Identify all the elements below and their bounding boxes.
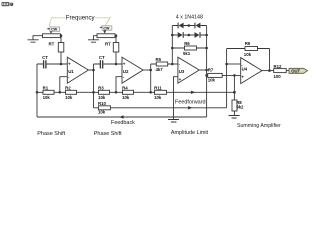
wire U1 out (88, 69, 93, 71)
svg-text:RT: RT (49, 41, 55, 46)
wire U4 minus row (227, 63, 241, 65)
ground pot1 (28, 40, 39, 42)
svg-text:+: + (179, 77, 182, 82)
node U2 out (149, 69, 152, 72)
capacitor CT1 (44, 60, 46, 68)
resistor R7 (208, 73, 223, 77)
node pot1 right (60, 34, 63, 37)
op-amp U1 (67, 57, 88, 83)
svg-text:R6: R6 (184, 41, 190, 46)
logo (2, 2, 14, 6)
op-amp U2 (122, 57, 143, 83)
svg-text:10k: 10k (122, 95, 130, 100)
wire limiter left rail (171, 26, 173, 65)
node RT2/sig (115, 63, 118, 66)
wire R7 row (207, 74, 241, 76)
svg-text:Phase Shift: Phase Shift (37, 131, 65, 137)
svg-text:10k: 10k (43, 95, 51, 100)
node rail left (36, 91, 39, 94)
pot1 wiper arrow (50, 30, 52, 33)
svg-text:10k: 10k (208, 77, 216, 82)
wire R8 to ground (233, 111, 235, 116)
feedback rail (37, 116, 207, 118)
svg-text:+: + (123, 62, 126, 67)
svg-text:R9: R9 (245, 41, 251, 46)
svg-text:U1: U1 (68, 69, 74, 74)
ground U3 plus (168, 120, 179, 123)
svg-text:4 x 1N4148: 4 x 1N4148 (176, 14, 203, 20)
svg-text:R10: R10 (98, 101, 107, 106)
wire R5 row (151, 63, 173, 65)
ground pot2 (88, 40, 99, 42)
svg-text:CW: CW (103, 27, 110, 31)
svg-text:RT: RT (105, 41, 111, 46)
resistor RT2 (113, 43, 119, 53)
node U3 out (205, 69, 208, 72)
CW badge 2 (99, 26, 112, 31)
node RT1/sig (60, 63, 63, 66)
wire U3 out (199, 69, 206, 71)
wire limiter right rail / U3 out vertical / feedback drop (206, 26, 208, 118)
resistor RT1 (58, 43, 64, 53)
callout lines frequency (49, 18, 110, 27)
node rail end (233, 91, 236, 94)
wire minus stub U2 (116, 77, 122, 93)
node mid left (171, 34, 174, 37)
resistor R1 (43, 90, 54, 94)
wire v2 vertical (150, 64, 152, 92)
svg-text:U2: U2 (123, 69, 129, 74)
wire R12 to out (286, 70, 289, 72)
node mid right (205, 34, 208, 37)
node R7 tee (205, 74, 208, 77)
arrow feedforward rail (191, 91, 196, 94)
node U1 out (92, 69, 95, 72)
potentiometer pot2 body (97, 34, 115, 38)
wire U3 minus stub (172, 63, 178, 65)
svg-text:10k: 10k (65, 95, 73, 100)
wire limiter top row (172, 25, 206, 27)
resistor R5 (156, 62, 167, 66)
wire pot1 left to ground (33, 36, 43, 40)
diode D2 (195, 23, 200, 29)
resistor R6 (185, 46, 197, 50)
svg-text:Feedforward: Feedforward (175, 99, 206, 105)
node pot2 right (115, 34, 118, 37)
svg-text:10k: 10k (244, 52, 252, 57)
svg-text:R12: R12 (274, 64, 283, 69)
resistor R10 (98, 106, 110, 110)
node out2 rail (149, 91, 152, 94)
diode D3 (178, 32, 183, 38)
wire CT2 row (94, 63, 123, 65)
wire U3 plus stub to ground (174, 77, 178, 120)
OUT tag (289, 68, 308, 73)
svg-text:CT: CT (42, 55, 48, 60)
svg-text:U4: U4 (242, 67, 248, 72)
svg-text:R5: R5 (156, 57, 162, 62)
node R6 left (171, 47, 174, 50)
svg-text:10k: 10k (98, 95, 106, 100)
wire minus stub U1 (60, 77, 68, 93)
wire CT1 row (37, 63, 67, 65)
resistor R9 (245, 47, 258, 51)
diode D4 (195, 32, 200, 38)
wire R10 row (94, 107, 227, 109)
svg-text:R11: R11 (154, 85, 162, 90)
wire RT2 vertical (115, 36, 117, 64)
svg-text:Frequency: Frequency (66, 14, 96, 21)
svg-text:9k2: 9k2 (236, 104, 244, 109)
wire pot2 left to ground (94, 36, 98, 40)
svg-text:Amplitude Limit: Amplitude Limit (171, 130, 209, 136)
node U4 out (268, 69, 271, 72)
op-amp U3 (178, 57, 199, 83)
resistor R3 (99, 90, 110, 94)
svg-text:R4: R4 (122, 85, 128, 90)
svg-text:+: + (68, 62, 71, 67)
text labels (66, 14, 203, 21)
diode D1 (179, 23, 184, 29)
resistor R12 (274, 69, 287, 73)
node R6 right (205, 47, 208, 50)
wire R9 rail (227, 49, 270, 71)
node U3 minus (171, 63, 174, 66)
node mid mid (188, 34, 191, 37)
resistor R8 (232, 100, 237, 111)
wire v1 vertical (93, 64, 95, 108)
arrow feedback (119, 115, 124, 118)
svg-text:Phase Shift: Phase Shift (94, 131, 122, 137)
svg-text:U3: U3 (179, 69, 185, 74)
wire limiter mid row (172, 34, 206, 36)
wire R8 leg (233, 75, 235, 100)
svg-text:100: 100 (274, 74, 282, 79)
node out1 rail (92, 91, 95, 94)
potentiometer pot1 body (43, 34, 61, 38)
wire feedback-left vertical (36, 64, 38, 117)
wire U4 out (262, 70, 274, 72)
resistor R11 (155, 90, 167, 94)
svg-text:10k: 10k (154, 95, 162, 100)
arrow feedforward row2 (188, 106, 193, 109)
wire RT1 vertical (60, 36, 62, 64)
ground R8 (229, 116, 240, 119)
wire U2 out (143, 69, 151, 71)
wire feedforward riser (226, 49, 228, 108)
bottom rail (37, 91, 234, 93)
node U4 plus (233, 74, 236, 77)
svg-text:OUT: OUT (291, 69, 300, 74)
resistor R4 (123, 90, 134, 94)
CW badge 1 (47, 27, 60, 32)
svg-text:4k7: 4k7 (156, 67, 164, 72)
svg-text:R1: R1 (43, 85, 49, 90)
wire R6 row (172, 47, 206, 49)
svg-text:10k: 10k (98, 109, 106, 114)
op-amp U4 (241, 58, 262, 84)
node U4 minus (225, 63, 228, 66)
svg-text:R2: R2 (65, 85, 71, 90)
svg-text:CT: CT (99, 55, 105, 60)
svg-text:Feedback: Feedback (111, 120, 135, 126)
svg-text:R7: R7 (208, 68, 214, 73)
svg-text:5k1: 5k1 (183, 51, 191, 56)
pot2 wiper arrow (104, 29, 106, 32)
node top diode mid (188, 24, 191, 27)
capacitor CT2 (100, 60, 102, 68)
svg-text:+: + (241, 74, 244, 79)
node minus2 rail (115, 91, 118, 94)
svg-text:R3: R3 (98, 85, 104, 90)
node minus1 rail (59, 91, 62, 94)
svg-text:Summing Amplifier: Summing Amplifier (237, 123, 281, 129)
svg-text:CW: CW (51, 28, 58, 32)
resistor R2 (66, 90, 77, 94)
